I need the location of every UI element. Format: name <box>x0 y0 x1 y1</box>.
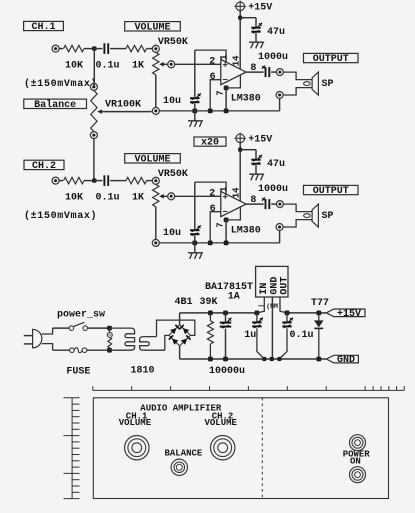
top ruler <box>93 386 404 390</box>
node bus 10u CH1 <box>192 109 197 114</box>
svg-text:+15V: +15V <box>248 2 272 13</box>
VR50K wiper arrow CH1 <box>159 62 167 67</box>
ground bus gnd CH2 <box>188 243 202 259</box>
op-amp LM380 CH2 <box>221 191 246 216</box>
label (±150mVmax) CH2 <box>24 210 97 222</box>
panel POWER <box>343 449 371 459</box>
pin 8 label CH2 <box>250 195 256 206</box>
svg-text:14: 14 <box>232 187 242 198</box>
svg-text:0.1u: 0.1u <box>96 61 120 72</box>
net flag GND <box>326 355 358 366</box>
bus terminal CH1 <box>152 107 159 114</box>
speaker SP CH1 <box>304 72 319 95</box>
wire bridge DC+ <box>179 313 181 325</box>
svg-text:1K: 1K <box>132 193 144 204</box>
node CH1 input junction <box>92 46 96 50</box>
fuse <box>70 348 87 353</box>
node bus pin6 CH1 <box>208 109 213 114</box>
svg-text:10u: 10u <box>163 228 181 239</box>
ground bus CH1 <box>159 110 279 112</box>
wire 10u top CH2 <box>194 182 196 229</box>
svg-text:47u: 47u <box>267 27 285 38</box>
terminal VR50K top CH1 <box>152 45 159 52</box>
left ruler <box>64 398 80 499</box>
svg-text:1: 1 <box>219 186 229 192</box>
knob volume CH1 <box>125 436 149 460</box>
wire CH1 1K-pot <box>147 48 153 50</box>
wire CH1 cap-1K <box>110 48 126 50</box>
pin 8 label CH1 <box>250 63 256 74</box>
label 47u CH2 <box>267 159 285 170</box>
bus terminal CH2 <box>152 239 159 246</box>
regulator BA17815T box <box>256 266 288 297</box>
capacitor 0.1u CH1 <box>104 43 108 54</box>
wire supply CH2 <box>239 143 241 150</box>
bridge rectifier 4B1 <box>169 325 191 346</box>
panel CH.1 <box>126 412 148 422</box>
svg-text:AUDIO AMPLIFIER: AUDIO AMPLIFIER <box>140 404 222 414</box>
label power_sw <box>57 310 105 321</box>
label LM380 CH1 <box>231 93 261 104</box>
svg-text:1810: 1810 <box>131 366 155 377</box>
resistor 10K CH1 <box>64 45 85 51</box>
wire output CH1 <box>246 71 264 73</box>
resistor 39K <box>207 313 213 359</box>
label BA17815T <box>205 282 253 293</box>
node 10000u bottom <box>223 357 228 362</box>
wire supply CH1 <box>239 11 241 18</box>
pin 14 label CH1 <box>232 55 242 66</box>
svg-text:1000u: 1000u <box>258 52 288 63</box>
knob volume CH2 <box>211 436 235 460</box>
wire CH1 input <box>59 48 63 50</box>
resistor 1K CH1 <box>126 45 147 51</box>
svg-text:OUTPUT: OUTPUT <box>313 186 349 197</box>
node 1u bottom <box>262 357 266 361</box>
pin 6 label CH2 <box>210 204 216 215</box>
terminal VR50K wiper CH1 <box>168 61 175 68</box>
panel BALANCE <box>165 449 203 459</box>
knob balance <box>171 459 187 475</box>
pin 7 label CH1 <box>216 90 226 95</box>
wire to speaker bottom CH2 <box>283 220 312 227</box>
label 47u CH1 <box>267 27 285 38</box>
svg-text:2: 2 <box>209 57 215 68</box>
wire CH2 input <box>59 180 63 182</box>
Balance box <box>24 99 87 111</box>
panel divider <box>261 398 263 499</box>
capacitor 47u CH2 <box>251 155 262 165</box>
label +15V CH2 <box>248 134 272 145</box>
svg-text:1A: 1A <box>228 291 240 302</box>
resistor 10K CH2 <box>64 177 85 183</box>
pin 7 label CH2 <box>216 222 226 227</box>
label 1000u CH2 <box>258 184 288 195</box>
label (±150mVmax) CH1 <box>24 78 97 90</box>
pin 1 label CH2 <box>219 186 229 192</box>
ground bus gnd CH1 <box>188 111 202 127</box>
wire 47u-gnd CH2 <box>255 165 257 174</box>
svg-text:LM380: LM380 <box>231 93 261 104</box>
terminal VR100K bottom <box>90 132 97 139</box>
DC- rail <box>180 358 327 360</box>
label 1K CH2 <box>132 193 144 204</box>
pin 7 wire down CH2 <box>225 220 227 243</box>
capacitor 10u CH2 <box>190 225 201 235</box>
wire CH2 wiper to pin2 <box>175 195 221 197</box>
terminal VR50K top CH2 <box>152 177 159 184</box>
wire 10u top CH1 <box>194 50 196 97</box>
svg-text:39K: 39K <box>200 297 218 308</box>
node bus pin7 CH1 <box>224 109 229 114</box>
svg-text:GND: GND <box>337 355 355 366</box>
op-amp LM380 CH1 <box>221 59 246 84</box>
svg-text:OUT: OUT <box>280 277 291 295</box>
wire 10u bottom CH1 <box>194 104 196 111</box>
svg-text:VR50K: VR50K <box>158 169 188 180</box>
svg-text:power_sw: power_sw <box>57 310 105 321</box>
pin 1 wire CH2 <box>195 182 226 194</box>
OUTPUT box CH2 <box>304 185 359 197</box>
CH.1 box <box>24 21 64 33</box>
label 0.1u CH1 <box>96 61 120 72</box>
regulator IN lead <box>257 297 264 313</box>
svg-text:7: 7 <box>216 90 226 95</box>
label 1u <box>244 330 256 341</box>
label 1A <box>228 291 240 302</box>
wire secondary top to bridge AC2 <box>157 320 195 337</box>
gnd pins wire CH1 <box>226 75 240 88</box>
pin 14 label CH2 <box>232 187 242 198</box>
label 10000u <box>209 366 245 377</box>
OUTPUT box CH1 <box>304 53 359 65</box>
wire CH2 1K-pot <box>147 180 153 182</box>
wire CH2 VR50K bottom <box>155 207 157 240</box>
wire to speaker bottom CH1 <box>283 88 312 95</box>
pin 14 wire CH2 <box>239 150 241 202</box>
potentiometer VR50K CH2 <box>153 185 159 207</box>
terminal VR100K top <box>90 83 97 90</box>
wire switch-lamp <box>88 327 110 329</box>
power lamp <box>350 435 366 451</box>
label 39K <box>200 297 218 308</box>
svg-text:4B1: 4B1 <box>175 297 193 308</box>
power switch <box>350 467 366 483</box>
output terminal top CH2 <box>276 201 283 208</box>
node T77 bottom <box>316 357 321 362</box>
label SP CH1 <box>322 79 334 90</box>
pin 7 wire down CH1 <box>225 88 227 111</box>
output terminal bottom CH1 <box>276 92 283 99</box>
switch power_sw <box>69 322 87 330</box>
wire secondary bottom to bridge AC1 <box>165 335 169 350</box>
svg-text:x20: x20 <box>201 138 219 149</box>
node reg IN <box>255 311 260 316</box>
svg-text:2: 2 <box>209 189 215 200</box>
capacitor 1u <box>252 313 264 359</box>
pin 1 wire CH1 <box>195 50 226 62</box>
svg-text:T77: T77 <box>311 298 329 309</box>
diode T77 <box>314 313 324 359</box>
panel CH.2 <box>212 412 234 422</box>
svg-text:1u: 1u <box>244 330 256 341</box>
svg-text:SP: SP <box>322 211 334 222</box>
wire output CH2 <box>246 203 264 205</box>
wire plug-fuse <box>53 349 70 351</box>
svg-text:VR100K: VR100K <box>105 99 141 110</box>
node bus pin7 CH2 <box>224 241 229 246</box>
wire CH2 cap-1K <box>110 180 126 182</box>
wire plug-switch <box>53 327 70 329</box>
label 10K CH2 <box>65 193 83 204</box>
svg-text:+15V: +15V <box>337 309 361 320</box>
VOLUME box CH2 <box>125 154 181 166</box>
node lamp bottom <box>107 348 112 353</box>
node bus pin6 CH2 <box>208 241 213 246</box>
label SP CH2 <box>322 211 334 222</box>
pin 14 wire CH1 <box>239 18 241 69</box>
panel title <box>140 404 222 414</box>
label VR50K CH1 <box>158 37 188 48</box>
wire cap-term CH2 <box>271 203 276 205</box>
DC+ rail right <box>287 312 326 314</box>
input terminal CH2 <box>52 177 59 184</box>
svg-text:7: 7 <box>216 222 226 227</box>
node CH2 input junction <box>92 178 96 182</box>
label GND pin <box>269 277 280 295</box>
svg-text:BALANCE: BALANCE <box>165 449 203 459</box>
node supply CH2 <box>238 148 242 152</box>
capacitor 0.1u CH2 <box>104 175 108 186</box>
svg-text:10K: 10K <box>65 61 83 72</box>
node T77 top <box>316 311 321 316</box>
gnd pins wire CH2 <box>226 207 240 220</box>
neon lamp <box>107 328 112 350</box>
node supply CH1 <box>238 16 242 20</box>
pin 6 label CH1 <box>210 72 216 83</box>
label +15V CH1 <box>248 2 272 13</box>
pin 7 node CH2 <box>224 218 229 223</box>
potentiometer VR50K CH1 <box>153 53 159 75</box>
x20 box <box>194 137 226 149</box>
wire to speaker top CH1 <box>284 72 313 80</box>
pin 7 node CH1 <box>224 86 229 91</box>
label VR50K CH2 <box>158 169 188 180</box>
pin 2 label CH2 <box>209 189 215 200</box>
VOLUME box CH1 <box>125 22 181 34</box>
node reg GND <box>270 357 274 361</box>
speaker SP CH2 <box>304 204 319 227</box>
node 0.1u bottom <box>277 357 281 361</box>
pin 2 label CH1 <box>209 57 215 68</box>
svg-text:14: 14 <box>232 55 242 66</box>
wire bridge DC- <box>179 346 181 359</box>
svg-text:(±150mVmax): (±150mVmax) <box>24 78 97 90</box>
CH.2 box <box>24 160 64 172</box>
svg-text:LM380: LM380 <box>231 225 261 236</box>
wire 10000u <box>225 313 227 359</box>
svg-text:FUSE: FUSE <box>66 367 90 378</box>
node reg OUT <box>285 311 290 316</box>
wire term-bus CH1 <box>279 99 281 111</box>
wire cap-term CH1 <box>271 71 276 73</box>
svg-text:47u: 47u <box>267 159 285 170</box>
wire 47u-gnd CH1 <box>255 33 257 42</box>
label LM380 CH2 <box>231 225 261 236</box>
svg-text:1000u: 1000u <box>258 184 288 195</box>
resistor 1K CH2 <box>126 177 147 183</box>
capacitor 47u CH1 <box>251 23 262 33</box>
capacitor 1000u CH1 <box>262 66 269 78</box>
panel VOLUME 2 <box>205 418 238 428</box>
ground 47u CH2 <box>249 174 263 180</box>
svg-text:VOLUME: VOLUME <box>135 22 171 33</box>
label FUSE <box>66 367 90 378</box>
capacitor 10000u <box>220 318 232 328</box>
wire CH1 VR50K bottom <box>155 75 157 108</box>
terminal VR50K wiper CH2 <box>168 193 175 200</box>
wire supply branch CH2 <box>240 150 256 160</box>
wire CH1 to node <box>84 48 94 50</box>
AC plug <box>24 329 42 348</box>
svg-text:CH.2: CH.2 <box>32 161 56 172</box>
panel ON <box>350 457 361 467</box>
label 10u CH1 <box>163 96 181 107</box>
wire CH1 wiper to pin2 <box>175 63 221 65</box>
wire VR100K to CH2 <box>93 139 95 181</box>
DC+ rail left <box>180 312 257 314</box>
svg-text:Balance: Balance <box>34 99 76 111</box>
label 0.1u CH2 <box>96 193 120 204</box>
label 1K CH1 <box>132 61 144 72</box>
node bus 10u CH2 <box>192 241 197 246</box>
label T77 <box>311 298 329 309</box>
label 1810 <box>131 366 155 377</box>
svg-text:VOLUME: VOLUME <box>119 418 152 428</box>
ground bus CH2 <box>159 242 279 244</box>
wire term-bus CH2 <box>279 231 281 243</box>
svg-text:0.1u: 0.1u <box>96 193 120 204</box>
+15V supply CH1 <box>235 1 246 12</box>
label (NM) <box>258 303 281 310</box>
svg-text:+15V: +15V <box>248 134 272 145</box>
svg-text:VR50K: VR50K <box>158 37 188 48</box>
svg-text:1K: 1K <box>132 61 144 72</box>
svg-text:10K: 10K <box>65 193 83 204</box>
output terminal bottom CH2 <box>276 224 283 231</box>
node 10000u top <box>223 311 228 316</box>
VR50K wiper arrow CH2 <box>159 194 167 199</box>
svg-text:10u: 10u <box>163 96 181 107</box>
svg-text:OUTPUT: OUTPUT <box>313 54 349 65</box>
svg-text:(±150mVmax): (±150mVmax) <box>24 210 97 222</box>
plug leads <box>42 328 53 350</box>
wire CH1 node down <box>93 49 95 84</box>
capacitor 1000u CH2 <box>262 198 269 210</box>
potentiometer VR100K <box>91 91 97 132</box>
wire 10u bottom CH2 <box>194 236 196 243</box>
svg-text:SP: SP <box>322 79 334 90</box>
capacitor 0.1u psu <box>279 313 293 359</box>
node lamp top <box>107 326 112 331</box>
transformer secondary <box>140 337 165 351</box>
net flag +15V <box>326 309 365 320</box>
label 1000u CH1 <box>258 52 288 63</box>
panel outline <box>93 398 388 499</box>
regulator OUT lead <box>280 297 287 313</box>
input terminal CH1 <box>52 45 59 52</box>
+15V supply CH2 <box>235 133 246 144</box>
transformer primary <box>110 328 135 350</box>
pin 6 wire CH1 <box>210 80 221 111</box>
regulator GND lead <box>271 297 273 359</box>
output terminal top CH1 <box>276 69 283 76</box>
node 39K bottom <box>208 357 213 362</box>
wire CH2 node-cap <box>94 180 102 182</box>
wire CH1 node-cap <box>94 48 102 50</box>
VR100K wiper arrow <box>97 109 151 114</box>
label OUT <box>280 277 291 295</box>
svg-text:VOLUME: VOLUME <box>205 418 238 428</box>
panel VOLUME 1 <box>119 418 152 428</box>
wire CH2 to node <box>84 180 94 182</box>
svg-text:CH.1: CH.1 <box>32 22 56 33</box>
wire supply branch CH1 <box>240 18 256 28</box>
svg-text:VOLUME: VOLUME <box>135 154 171 165</box>
label 10K CH1 <box>65 61 83 72</box>
svg-text:10000u: 10000u <box>209 366 245 377</box>
svg-text:0.1u: 0.1u <box>290 330 314 341</box>
ground 47u CH1 <box>249 42 263 48</box>
node 39K top <box>208 311 213 316</box>
svg-text:ON: ON <box>350 457 361 467</box>
wire fuse-lamp <box>87 349 110 351</box>
capacitor 10u CH1 <box>190 93 201 103</box>
label 10u CH2 <box>163 228 181 239</box>
wire to speaker top CH2 <box>284 204 313 212</box>
svg-text:1: 1 <box>219 54 229 60</box>
pin 1 label CH1 <box>219 54 229 60</box>
label 4B1 <box>175 297 193 308</box>
label 0.1u psu <box>290 330 314 341</box>
pin 6 wire CH2 <box>210 212 221 243</box>
label VR100K <box>105 99 141 110</box>
label IN <box>259 283 270 295</box>
